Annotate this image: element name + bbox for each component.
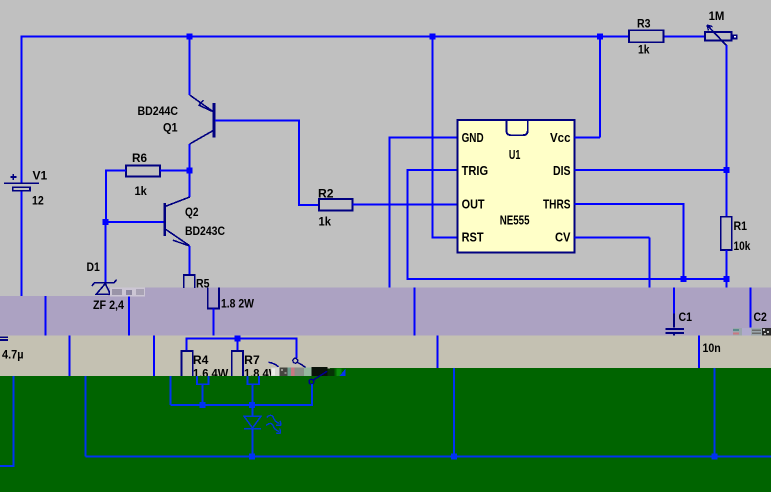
capacitor C1 (666, 314, 684, 336)
svg-text:R3: R3 (637, 16, 651, 30)
IC U1 NE555 body (458, 120, 575, 253)
node junction GND chain / ground rail (451, 453, 457, 459)
wire R2 right lead to OUT pin (353, 203, 458, 205)
node junction top rail / RST (430, 34, 436, 40)
wire D1 lead shifted copy in lavender band (128, 297, 130, 336)
wire C1 chain in green area (714, 368, 716, 456)
svg-text:1k: 1k (319, 215, 332, 229)
wire TRIG pin left, down and right to THRS/R1 rail (408, 170, 727, 279)
wire R7 top lead (237, 338, 239, 351)
svg-text:OUT: OUT (462, 196, 485, 211)
svg-text:1k: 1k (638, 43, 650, 57)
wire LED cathode lead to ground rail (251, 429, 253, 456)
wire R6 right lead to collector node (160, 170, 190, 172)
svg-text:CV: CV (555, 229, 571, 244)
wire node to D1 zener (105, 222, 107, 282)
wire C1 lead shifted copy in tan band (698, 336, 700, 369)
wire R5 bottom lead in lavender band (212, 308, 214, 335)
wire R1 bottom to rail junction (725, 250, 727, 288)
resistor R2 (319, 199, 353, 211)
svg-text:R6: R6 (132, 151, 147, 165)
resistor R4 in tan band (182, 351, 193, 376)
resistor R6 (126, 166, 160, 177)
node junction top rail / Vcc (597, 34, 603, 40)
node junction R1 / TRIG rail (723, 276, 729, 282)
potentiometer 1M (705, 25, 736, 46)
svg-text:V1: V1 (33, 168, 48, 182)
LED light arrows (266, 415, 281, 433)
node junction LED / ground rail (249, 453, 255, 459)
svg-text:R2: R2 (318, 187, 334, 201)
wire left rail from top rail to battery (21, 36, 23, 184)
resistor R1 (721, 217, 732, 250)
svg-text:10k: 10k (734, 239, 751, 253)
svg-text:R1: R1 (734, 219, 748, 233)
svg-text:DIS: DIS (553, 163, 571, 178)
svg-text:C2: C2 (754, 310, 768, 324)
LED diode symbol (244, 416, 261, 429)
wire Vcc pin to top rail (574, 37, 599, 138)
resistor R7 in tan band (232, 351, 243, 376)
glitch band green (0, 376, 771, 492)
wire CV/C1 lead in lavender band (673, 288, 675, 314)
glitch band lavender (0, 288, 771, 336)
svg-text:TRIG: TRIG (462, 163, 489, 178)
resistor R5 upper part in gray area (184, 275, 195, 288)
wire Q1 collector down to Q2 collector (189, 144, 191, 197)
svg-text:10n: 10n (703, 341, 721, 355)
node junction R7 lead LED top / LED rail (249, 402, 255, 408)
wire GND pin left and down (390, 138, 458, 288)
glitch band tan (0, 336, 771, 376)
svg-text:Vcc: Vcc (550, 130, 571, 145)
svg-text:NE555: NE555 (500, 213, 530, 228)
battery V1 (4, 174, 39, 191)
svg-text:BD244C: BD244C (138, 104, 179, 118)
wire LED rail horizontal (171, 384, 313, 405)
node junction top rail / Q1 emitter (187, 34, 193, 40)
wire THRS pin right and down (574, 204, 683, 279)
svg-text:Q2: Q2 (185, 205, 199, 219)
wire R6 left lead down to node (106, 171, 126, 222)
svg-text:THRS: THRS (543, 196, 571, 211)
svg-text:U1: U1 (509, 147, 521, 162)
zener diode D1 (92, 280, 117, 295)
svg-text:RST: RST (462, 229, 484, 244)
svg-text:1.8 2W: 1.8 2W (221, 297, 255, 311)
node junction THRS / TRIG rail (681, 276, 687, 282)
wire left rail shifted copy in tan band (68, 336, 70, 376)
svg-text:1k: 1k (135, 184, 148, 198)
wire RST pin from top rail (433, 37, 458, 238)
wire R5 bottom shifted stub in tan band (237, 336, 239, 339)
node junction C1 chain / ground rail (712, 453, 718, 459)
svg-text:12: 12 (32, 193, 44, 207)
wire battery minus down left rail (21, 191, 23, 296)
wire GND line shifted copy in lavender band (414, 288, 416, 336)
svg-text:Q1: Q1 (163, 120, 178, 134)
wire R4 bottom lead (202, 384, 204, 405)
wire top rail V+ (22, 36, 705, 38)
glitch noise patch near zener (110, 288, 145, 297)
wire left rail shifted copy in lavender band (44, 296, 46, 336)
node junction R6 left / Q2 base / D1 (103, 219, 109, 225)
svg-text:R7: R7 (244, 353, 260, 367)
svg-text:1M: 1M (709, 9, 725, 23)
wire rail feeding R4 R7 and switch in tan band (186, 338, 296, 358)
wire ground rail bottom (85, 455, 771, 457)
svg-text:BD243C: BD243C (185, 224, 225, 238)
wire LED anode lead (251, 405, 253, 416)
wire GND line shifted copy in tan band (437, 336, 439, 369)
wire pot to right rail down (726, 45, 728, 217)
switch lever (297, 362, 305, 367)
node junction DIS / right rail (723, 167, 729, 173)
resistor R3 (629, 30, 664, 42)
svg-text:4.7µ: 4.7µ (2, 348, 24, 362)
transistor Q1 BD244C (190, 95, 214, 144)
node junction R4 lead / LED rail (200, 402, 206, 408)
resistor R7 bottom cup in green (247, 376, 259, 384)
resistor R5 lower part shifted in lavender band (208, 288, 219, 309)
wire Q2 base (106, 221, 164, 223)
glitch noise patch at tan/green boundary (271, 367, 345, 376)
node junction R5/R7 top rail (235, 335, 241, 341)
transistor Q2 BD243C (165, 197, 190, 246)
resistor R4 bottom cup in green (197, 376, 209, 384)
wire CV pin right and down to C1 (574, 238, 649, 288)
wire Q1 emitter from top rail (189, 37, 191, 96)
svg-text:D1: D1 (87, 260, 101, 274)
wire Q1 base to R2 (215, 120, 319, 204)
wire DIS pin to right rail (574, 169, 726, 171)
switch terminal bottom circle (309, 379, 314, 384)
wire D1 chain down to LED rail (170, 376, 172, 405)
wire left rail in green area to ground rail (84, 376, 86, 457)
wire R7 bottom lead (252, 384, 254, 405)
wire right rail shifted copy in lavender band (C2) (750, 288, 752, 328)
svg-text:R4: R4 (193, 353, 209, 367)
wire Q2 emitter down to R5 (189, 246, 191, 275)
wire glitch lever arc fragment (269, 362, 279, 366)
svg-text:ZF 2,4: ZF 2,4 (93, 298, 124, 312)
node junction R6 right / Q1-Q2 collectors (187, 168, 193, 174)
wire GND chain in green area (453, 368, 455, 456)
capacitor 4.7u plates at left edge in tan band (0, 337, 8, 340)
wire D1 lead shifted copy in tan band (153, 336, 155, 376)
switch terminal top circle (293, 358, 298, 363)
wire glitch stub bottom left (0, 376, 13, 466)
svg-text:GND: GND (462, 130, 484, 145)
switch lever lower segment (313, 371, 327, 380)
glitch noise patch near C2 (733, 328, 771, 335)
svg-text:C1: C1 (679, 310, 693, 324)
